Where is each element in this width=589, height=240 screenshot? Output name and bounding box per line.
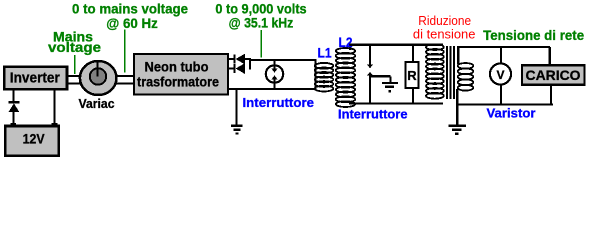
wire variac to neon box (bottom) — [116, 83, 135, 85]
wire inverter down-right to 12V battery — [53, 88, 55, 126]
wire top rail L2 to transformer — [349, 44, 443, 46]
ground (transformer secondary) — [448, 126, 466, 134]
safety gap bottom electrode — [367, 72, 373, 104]
wire inverter to variac (top) — [66, 75, 81, 77]
wire bottom rail neon box to L1 — [228, 88, 316, 90]
svg-text:Riduzione: Riduzione — [418, 14, 471, 28]
wire down to transformer ground — [456, 99, 458, 125]
terminal post left on 12V — [10, 123, 16, 129]
wire bottom rail transformer to CARICO — [456, 103, 553, 105]
svg-text:Interruttore: Interruttore — [338, 107, 408, 122]
diode D2 (top HV diode) — [233, 54, 251, 65]
pointer line from @60Hz label — [124, 30, 126, 73]
svg-text:@ 60 Hz: @ 60 Hz — [106, 16, 158, 31]
svg-text:di tensione: di tensione — [413, 27, 476, 41]
inverter box — [4, 67, 67, 90]
transformer secondary winding — [457, 46, 473, 104]
voltmeter V — [490, 63, 511, 84]
svg-text:Variac: Variac — [79, 96, 115, 111]
svg-text:L2: L2 — [339, 35, 353, 50]
safety gap top electrode — [367, 45, 373, 68]
coil L2 (secondary) — [336, 44, 355, 107]
svg-text:CARICO: CARICO — [526, 67, 581, 83]
wire variac to neon box (top) — [116, 75, 135, 77]
transformer core — [447, 46, 454, 99]
diode D3 (bottom HV diode) — [233, 63, 245, 74]
wire neon box to top diode — [228, 58, 234, 60]
wire joining diode outputs — [249, 58, 251, 70]
coil L1 (primary) — [315, 59, 334, 92]
12V battery box — [5, 126, 59, 156]
neon transformer box — [134, 54, 228, 95]
svg-text:V: V — [496, 68, 504, 82]
pointer line from Mains voltage label — [74, 55, 76, 74]
wire gap tap to ground — [370, 76, 391, 82]
spark gap (interruttore) circle — [266, 60, 283, 89]
ground (safety gap) — [382, 83, 398, 91]
wire top rail diodes to L1 — [249, 59, 316, 61]
svg-text:@ 35.1 kHz: @ 35.1 kHz — [229, 16, 294, 31]
wire neon box to bottom diode — [228, 68, 234, 70]
wire bottom rail L2 to transformer — [349, 102, 443, 104]
svg-text:12V: 12V — [23, 131, 46, 147]
wire CARICO top — [549, 47, 551, 65]
label: Mains voltage — [48, 30, 102, 56]
terminal post right on 12V — [52, 123, 58, 129]
resistor R — [406, 62, 419, 88]
wire R bottom — [412, 88, 414, 103]
pointer line from 35.1kHz label — [260, 30, 262, 58]
label: 0 to mains voltage @ 60 Hz — [72, 1, 188, 31]
svg-text:Neon tubo: Neon tubo — [145, 60, 209, 75]
svg-text:L1: L1 — [318, 46, 332, 61]
wire diode to 12V battery — [13, 112, 15, 126]
transformer primary winding — [426, 44, 444, 99]
wire R top — [412, 45, 414, 62]
wire voltmeter top — [500, 47, 502, 64]
diode D1 — [8, 101, 19, 112]
label: 0 to 9,000 volts @ 35.1 kHz — [215, 1, 306, 30]
svg-text:Tensione di rete: Tensione di rete — [483, 27, 584, 43]
wire top rail transformer to CARICO — [457, 46, 550, 48]
label: Riduzione di tensione — [413, 14, 476, 41]
CARICO load box — [522, 65, 585, 84]
svg-text:Inverter: Inverter — [10, 71, 60, 87]
svg-text:0 to 9,000 volts: 0 to 9,000 volts — [215, 1, 306, 16]
svg-text:R: R — [407, 68, 417, 83]
svg-text:Varistor: Varistor — [487, 106, 536, 121]
variac T1 — [80, 61, 117, 95]
svg-text:trasformatore: trasformatore — [137, 75, 219, 90]
wire CARICO bottom — [550, 85, 552, 104]
wire inverter to variac (bottom) — [66, 83, 81, 85]
svg-text:0 to mains voltage: 0 to mains voltage — [72, 1, 188, 16]
svg-text:Interruttore: Interruttore — [243, 95, 315, 110]
svg-text:voltage: voltage — [48, 40, 102, 55]
wire inverter down-left to diode — [13, 88, 15, 102]
wire voltmeter bottom — [500, 85, 502, 105]
ground (neon transformer) — [231, 126, 243, 134]
wire down from bottom rail to ground — [235, 89, 237, 125]
